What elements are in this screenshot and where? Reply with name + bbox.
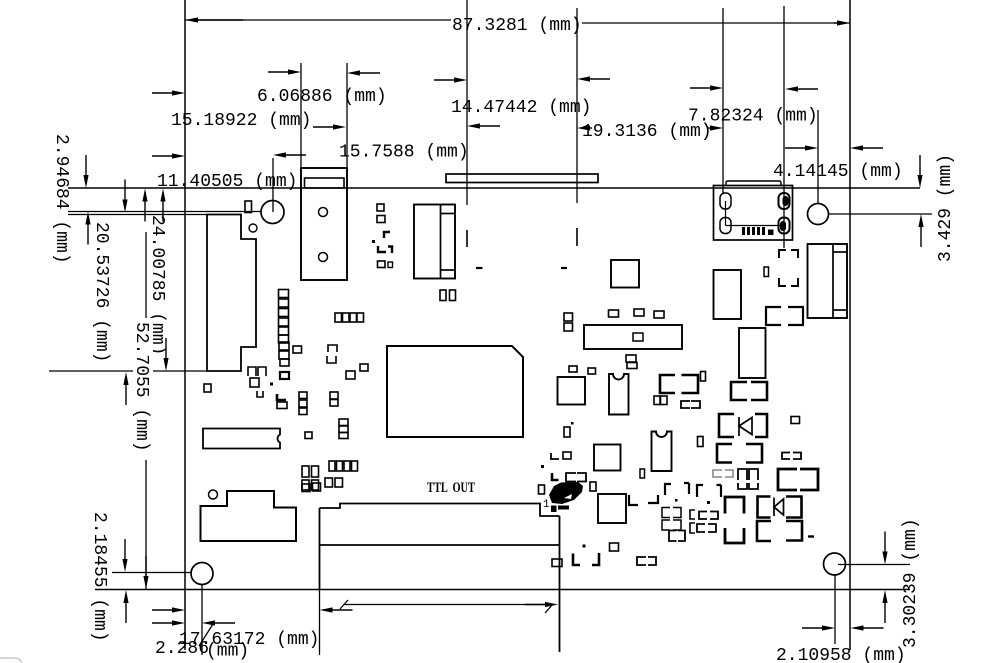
svg-text:87.3281 (mm): 87.3281 (mm) <box>452 16 582 36</box>
dim 24.00785 arrow down at y371 <box>163 358 168 371</box>
pad pair 782,452 <box>782 453 790 460</box>
CN2 contact top <box>833 251 847 253</box>
pad 609,543 <box>610 543 619 551</box>
bracket 551,453 <box>551 453 559 459</box>
dim 2.18455 arrow down at y572 <box>122 559 127 572</box>
open pair 738,483 <box>738 483 747 489</box>
pad 626,355 <box>626 355 636 362</box>
diode D2 right bracket <box>786 497 802 518</box>
dim 87.3281 line right part <box>582 22 850 24</box>
pad 293,346 <box>293 346 302 353</box>
black bar below blob <box>558 506 569 510</box>
pad pair 699,511 <box>699 512 707 520</box>
dim 2.286 arrow at x202 <box>202 620 215 625</box>
pad 346,371 <box>346 371 355 379</box>
TTL connector top outline <box>320 504 560 517</box>
dim arrow at x546 y604 <box>545 602 558 607</box>
dim 4.14145 arrow at x850 <box>850 145 863 150</box>
dim 15.18922 arrow at x185 <box>172 90 185 95</box>
large open pad 725,497 top <box>725 497 744 514</box>
screen artifact bottom-left corner <box>0 658 22 663</box>
pads near speaker x377 <box>377 204 384 211</box>
white backing for 52.7055 text <box>133 318 153 460</box>
large open pad 725,528 bottom <box>725 528 744 543</box>
dim 3.429 arrow up at y214 <box>918 214 923 227</box>
pad 640,469 <box>640 469 645 478</box>
SOT223 Q2 with notch <box>652 432 672 472</box>
hole line top right y=214 <box>829 213 932 215</box>
micro-USB pad TR <box>779 193 790 209</box>
speaker component top-left <box>301 168 347 280</box>
board left edge / extension line <box>184 0 186 650</box>
diode D1 left bracket <box>719 414 734 437</box>
black L 551,473 <box>552 473 559 480</box>
dot 676,500 <box>675 499 678 502</box>
pad 279,351 <box>279 351 289 359</box>
dashed pad 779,250 <box>779 250 798 286</box>
main IC U1 with chamfer <box>387 346 523 437</box>
gray pad pair 713,470 <box>713 470 722 477</box>
dot 373,241 <box>372 240 375 243</box>
brackets 690,510 <box>690 510 695 519</box>
IC block top-center <box>584 325 682 349</box>
dim 2.94684 arrow up at y212 <box>85 212 90 225</box>
dim 87.3281 arrow left <box>185 17 198 22</box>
pad column x283 <box>279 290 289 298</box>
plain pad 713,270 <box>714 270 742 319</box>
slash tick at 344,604 <box>340 600 348 609</box>
dim 87.3281 line left part <box>185 19 451 21</box>
pad 590,482 <box>590 482 596 491</box>
pad 608,310 <box>609 310 619 317</box>
black L 276,394 <box>277 394 286 400</box>
pad pair 731,382 <box>731 382 747 400</box>
SOT223 Q1 with notch <box>609 374 629 415</box>
DIP component with notch left-bottom <box>203 429 280 449</box>
pads 654,396 <box>654 396 660 405</box>
diode D1 right bracket <box>755 414 767 437</box>
bracket L 572,553 <box>573 554 580 566</box>
pad 280,358 <box>280 359 289 366</box>
pad 360,364 <box>360 364 368 371</box>
IC U3 square <box>558 377 586 405</box>
mounting hole bottom-right <box>824 553 846 575</box>
speaker hole 1 <box>319 208 328 217</box>
pad 700,371 <box>701 372 706 382</box>
micro-USB pad TL <box>720 193 731 209</box>
pad pair 566,473 <box>566 473 576 482</box>
tick below x=577 <box>576 188 578 203</box>
pad 277,402 <box>277 402 287 409</box>
dim 20.53726 arrow down at y213 <box>122 200 127 213</box>
bracket 648,495 <box>648 495 658 503</box>
dim 87.3281 arrow right <box>837 20 850 25</box>
dash 561,268 <box>561 267 567 269</box>
dim 11.40505 arrow at x273 <box>273 152 286 157</box>
micro-USB body <box>714 186 793 241</box>
pad col 339,419 <box>339 419 348 426</box>
pad 764,267 <box>764 267 769 277</box>
micro-USB pad link vertical <box>725 201 727 226</box>
grid pads 662,507 <box>662 508 670 518</box>
dim 2.286 arrow at x185 <box>172 620 185 625</box>
pad row4 y461 <box>329 461 335 471</box>
extension line x=347 <box>346 63 348 188</box>
svg-text:52.7055 (mm): 52.7055 (mm) <box>131 322 151 452</box>
dot 271,384 <box>270 383 273 386</box>
pad 564,313 <box>564 313 573 321</box>
dim 15.18922 arrow at x301 <box>288 69 301 74</box>
svg-text:20.53726 (mm): 20.53726 (mm) <box>91 222 111 362</box>
dim 52.7055 arrow down at y589 <box>143 576 148 589</box>
svg-text:3.429 (mm): 3.429 (mm) <box>936 154 956 262</box>
pad 204,384 <box>204 384 211 392</box>
pad pair 717,444 <box>717 444 732 463</box>
pad 627,362 <box>627 363 637 369</box>
corner tick 684,483 <box>684 483 689 494</box>
pad 257,391 open <box>257 391 263 397</box>
dim 11.40505 arrow at x185 <box>172 153 185 158</box>
extension line x=273 (hole center) <box>272 158 274 212</box>
pad pair 697,524 <box>697 524 705 532</box>
svg-text:2.18455 (mm): 2.18455 (mm) <box>89 512 109 642</box>
svg-text:15.18922 (mm): 15.18922 (mm) <box>171 111 311 131</box>
DC jack contact bottom <box>441 269 456 271</box>
svg-text:15.7588 (mm): 15.7588 (mm) <box>339 143 469 163</box>
dim 2.286 leader line <box>199 624 213 646</box>
svg-text:14.47442 (mm): 14.47442 (mm) <box>451 98 591 118</box>
corner tick 716,485 <box>717 485 722 497</box>
tall component right <box>739 328 766 378</box>
pad col 299,392 <box>299 392 307 399</box>
pad 563,452 <box>563 452 571 459</box>
dash x=577 <box>576 228 578 246</box>
power jack bottom-left outline <box>201 491 297 541</box>
mounting hole top-left <box>261 201 284 224</box>
dim 2.10958 arrow at x850 <box>851 625 864 630</box>
dash 808,536 <box>808 535 814 537</box>
pads above power jack <box>302 484 310 492</box>
dim 52.7055 arrow up at y188 <box>160 189 165 202</box>
extension line x=784 <box>783 6 785 248</box>
extension line x=818 <box>817 110 819 203</box>
mounting hole top-right <box>808 204 829 225</box>
diode D1 symbol <box>739 417 752 436</box>
micro-USB top tab <box>726 181 781 186</box>
pad 569,366 <box>569 366 577 372</box>
vertical ext x=146 <box>145 232 147 589</box>
black component blob <box>549 482 583 504</box>
DC jack inner wall <box>440 205 442 279</box>
extension line x=301 <box>300 63 302 188</box>
dimension line y=371 <box>49 370 207 372</box>
micro-USB signal pads <box>742 227 745 235</box>
pad 564,323 <box>564 323 573 331</box>
dim 7.82324 arrow at x723 <box>710 85 723 90</box>
dim 3.30239 arrow down at y565 <box>882 552 887 565</box>
dot 708,502 <box>707 501 710 504</box>
dim 14.47442 arrow at x467 <box>454 77 467 82</box>
dim 15.7588 arrow at x347 <box>333 124 346 129</box>
dash x=467 <box>466 230 468 247</box>
dim 19.3136 arrow left <box>577 125 590 130</box>
DC jack body <box>414 205 455 279</box>
dimension line y=572.5 <box>112 572 191 574</box>
black L 377,246 <box>378 246 386 252</box>
pad pair 669,530 <box>669 531 677 542</box>
dim 24.00785 arrow up at y188 <box>142 189 147 202</box>
header bar top <box>446 174 598 183</box>
dimension line y=604.5 <box>344 604 545 606</box>
dim 20.53726 arrow up at y371 <box>123 372 128 385</box>
dot 542,466 <box>541 465 544 468</box>
black tick 389,247 <box>388 247 392 254</box>
svg-text:2.94684 (mm): 2.94684 (mm) <box>51 134 71 264</box>
dim 3.429 arrow down at y188 <box>917 175 922 188</box>
pad pair 325,478 <box>325 478 333 487</box>
connector reference line y=214.5 <box>68 214 207 216</box>
pad above CN1 <box>245 201 252 213</box>
TTL connector left edge <box>319 508 321 589</box>
svg-text:(mm): (mm) <box>206 642 249 662</box>
bracket 328,345 <box>328 345 337 352</box>
pad 330,392 <box>330 392 338 399</box>
speaker inner tab <box>305 178 345 188</box>
pad 791,416 <box>791 417 800 424</box>
black square below blob <box>551 506 557 513</box>
pad crossing TTL right edge <box>552 559 562 567</box>
dot 583,545 <box>583 545 586 548</box>
slash tick at 549,609 <box>545 604 553 613</box>
dim 17.63172 arrow at x319 <box>320 607 333 612</box>
pad 697,436 <box>698 437 704 447</box>
pad pair 660,375 large <box>660 375 675 393</box>
hole line bottom right y=565 <box>838 564 910 566</box>
TTL connector inner line <box>320 544 560 546</box>
pad 280,372 dark <box>280 372 289 379</box>
power jack pin hole <box>209 490 218 499</box>
pad pair 757,521 <box>757 521 771 541</box>
open pair 738,469 <box>738 469 747 480</box>
DC jack contact top <box>441 213 456 215</box>
svg-text:TTL OUT: TTL OUT <box>427 480 475 496</box>
dim 2.94684 arrow down at y188 <box>83 175 88 188</box>
extension line x=577 <box>576 8 578 188</box>
CN2 contact bottom <box>833 309 847 311</box>
vertical ext x=835 bottom <box>834 575 836 644</box>
pad pair 248,367 <box>248 367 256 376</box>
TTL connector right edge <box>559 516 561 652</box>
pad inside IC block <box>633 333 643 341</box>
pad 305,432 <box>305 432 312 439</box>
pad 250,378 <box>250 378 259 387</box>
pad 634,309 <box>634 309 644 316</box>
dim 19.3136 arrow right <box>710 125 723 130</box>
dim 2.18455 arrow up at y589 <box>123 590 128 603</box>
IC U4 square <box>594 445 621 471</box>
diode D2 left bracket <box>758 497 771 518</box>
pad 377,261 <box>378 261 386 268</box>
pad 654,311 <box>654 311 664 318</box>
corner tick 697,485 <box>697 485 703 497</box>
dim 17.63172 arrow at x185 <box>172 607 185 612</box>
pad row4 y313 <box>335 313 342 322</box>
bracket pair 766,307 <box>766 307 781 325</box>
bracket open 327,356 <box>327 356 336 363</box>
mounting hole bottom-left <box>191 563 213 585</box>
extension line x=467 <box>466 0 468 188</box>
pad pair 302,466 <box>302 466 309 477</box>
dim 6.06886 arrow at x347 <box>347 70 360 75</box>
dim 3.30239 arrow up at y589 <box>882 590 887 603</box>
dim 14.47442 arrow at x577 <box>577 76 590 81</box>
board top edge <box>68 187 920 189</box>
diode D2 symbol <box>774 498 784 517</box>
dash 476,268 <box>476 267 483 269</box>
vertical ext x=202 bottom <box>201 584 203 655</box>
svg-text:11.40505 (mm): 11.40505 (mm) <box>157 172 297 192</box>
dim 2.10958 arrow at x835 <box>822 625 835 630</box>
IC U5 square <box>598 494 626 523</box>
svg-text:4.14145 (mm): 4.14145 (mm) <box>773 162 903 182</box>
svg-text:2.10958 (mm): 2.10958 (mm) <box>776 646 906 663</box>
pad 564,427 with dot <box>564 427 570 437</box>
board bottom edge <box>95 589 910 591</box>
vertical ext x=319.5 bottom <box>319 589 321 655</box>
board right edge / extension line <box>849 0 851 650</box>
pad 538,485 <box>539 485 545 494</box>
corner tick 665,484 <box>665 484 671 495</box>
extension line x=723 <box>722 8 724 194</box>
pad 388,262 <box>388 262 393 268</box>
svg-text:3.30239 (mm): 3.30239 (mm) <box>901 518 921 648</box>
bracket 629,495 <box>629 495 638 505</box>
svg-text:6.06886 (mm): 6.06886 (mm) <box>257 87 387 107</box>
micro-USB pad BL <box>720 218 731 234</box>
dim 15.7588 arrow at x467 <box>467 123 480 128</box>
svg-text:2.286: 2.286 <box>155 639 209 659</box>
svg-text:7.82324 (mm): 7.82324 (mm) <box>688 107 818 127</box>
IC U2 square <box>611 260 639 288</box>
micro-USB shield pad <box>768 230 774 236</box>
pad pair 778,469 large <box>778 469 797 490</box>
speaker hole 2 <box>319 253 328 262</box>
pin hole CN1 <box>249 224 257 232</box>
pad pair small 681,401 <box>681 401 690 408</box>
micro-USB pad link horizontal <box>726 225 785 227</box>
tick below x=467 <box>466 188 468 205</box>
blob white notch <box>564 494 572 499</box>
pad 330,399 <box>330 400 338 407</box>
black corner 384,231 <box>384 232 390 238</box>
CN2 inner wall <box>832 244 834 318</box>
svg-text:1: 1 <box>543 499 550 511</box>
bracket J 592,553 <box>592 553 599 565</box>
pad 279,344 <box>279 342 289 350</box>
dim 7.82324 arrow at x784 <box>785 86 798 91</box>
pad pair 440,290 <box>440 290 446 301</box>
connector CN1 left edge outline <box>207 215 256 372</box>
micro-USB pad BR <box>779 218 790 234</box>
pad pair 302,480 <box>302 480 309 490</box>
hole center line y=212 <box>68 211 261 213</box>
pad pair 637,557 <box>637 557 646 565</box>
dim 4.14145 arrow at x818 <box>805 145 818 150</box>
connector CN2 right body <box>808 244 848 318</box>
pad 588,368 <box>588 368 596 374</box>
